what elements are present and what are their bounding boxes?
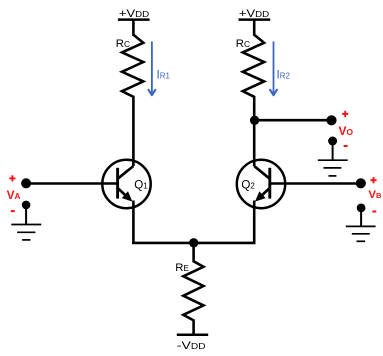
svg-text:+VDD: +VDD — [119, 8, 149, 20]
svg-text:RE: RE — [175, 262, 189, 274]
svg-text:RC: RC — [236, 38, 250, 50]
svg-text:IR2: IR2 — [277, 67, 290, 81]
svg-text:VA: VA — [7, 188, 21, 202]
svg-text:VO: VO — [339, 124, 354, 138]
svg-text:IR1: IR1 — [157, 67, 170, 81]
svg-text:+VDD: +VDD — [239, 8, 269, 20]
svg-text:-VDD: -VDD — [177, 340, 206, 351]
svg-text:VB: VB — [368, 189, 382, 201]
svg-text:RC: RC — [116, 38, 130, 50]
svg-text:Q2: Q2 — [241, 178, 254, 191]
svg-text:Q1: Q1 — [134, 178, 147, 191]
